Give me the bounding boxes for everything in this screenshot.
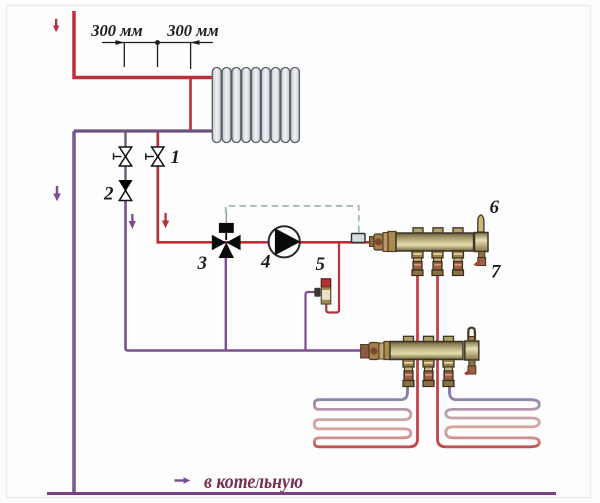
svg-text:в котельную: в котельную bbox=[204, 471, 303, 493]
svg-text:4: 4 bbox=[260, 252, 271, 273]
svg-text:7: 7 bbox=[491, 262, 502, 283]
svg-text:300 мм: 300 мм bbox=[90, 21, 142, 40]
svg-text:300 мм: 300 мм bbox=[166, 21, 218, 40]
svg-text:3: 3 bbox=[197, 253, 208, 274]
svg-text:6: 6 bbox=[490, 197, 500, 218]
svg-text:5: 5 bbox=[316, 254, 326, 275]
svg-text:2: 2 bbox=[103, 184, 114, 205]
svg-text:1: 1 bbox=[171, 147, 181, 168]
